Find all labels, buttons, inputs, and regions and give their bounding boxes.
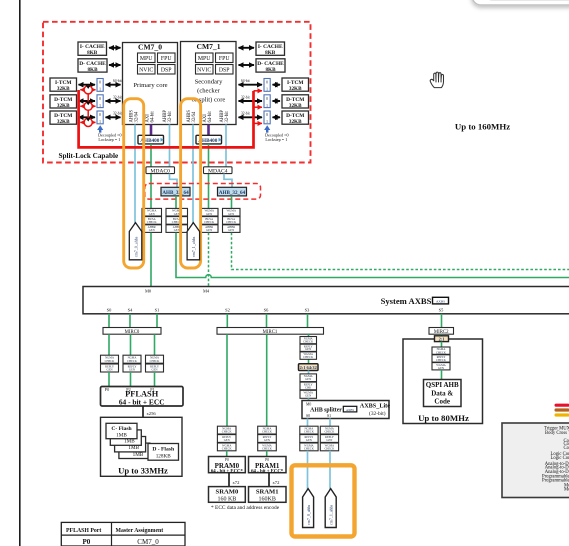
- svg-text:64 - bit + ECC*: 64 - bit + ECC*: [251, 469, 284, 474]
- svg-text:Data &: Data &: [431, 390, 453, 398]
- port label AXI 64-bit of CM7_0: [146, 111, 156, 123]
- MDAC0: [146, 167, 175, 175]
- I-TCM left of CM7_0: [50, 78, 77, 92]
- svg-text:x256: x256: [147, 411, 157, 416]
- gasket stack PRAM0: [217, 426, 236, 451]
- svg-text:1: 1: [266, 120, 268, 124]
- FPU U-CM7_0: [158, 53, 176, 63]
- svg-text:MDAC0: MDAC0: [150, 169, 170, 175]
- C-Flash stacked blocks: [106, 423, 150, 458]
- wire S3 to MIRC1: [307, 314, 309, 328]
- D-TCM left of CM7_0 (lower): [50, 111, 77, 125]
- svg-text:GEN: GEN: [305, 377, 312, 381]
- svg-text:32-bit: 32-bit: [241, 95, 250, 99]
- gasket stack ahbp1 (under AHB_32_64 right): [223, 208, 241, 232]
- lockstep select arrow right: [264, 125, 289, 142]
- svg-text:8KB: 8KB: [265, 50, 276, 56]
- svg-text:Mo: Mo: [564, 488, 569, 493]
- svg-text:CHECK: CHECK: [303, 355, 314, 359]
- svg-text:M0: M0: [306, 403, 311, 407]
- svg-text:SRAM1: SRAM1: [256, 489, 279, 496]
- svg-text:(checker: (checker: [197, 88, 220, 95]
- wire gasket P0 to PFLASH: [108, 372, 110, 387]
- I-TCM right of CM7_1: [282, 78, 309, 92]
- svg-text:S6: S6: [264, 307, 269, 312]
- port pentagon cm7_1_ahbs (top): [187, 223, 200, 260]
- svg-text:AHB splitter: AHB splitter: [310, 408, 342, 414]
- wire AHBP CM7_0 to MDAC0 (cyan): [169, 125, 171, 167]
- wire MDAC4 to AHB_32_64 (cyan jog): [224, 174, 232, 188]
- DSP U-CM7_0: [158, 65, 176, 75]
- svg-text:GEN: GEN: [306, 438, 313, 442]
- svg-text:0: 0: [266, 81, 268, 85]
- peripheral bus brown: [555, 408, 569, 411]
- wire S5 to MIRC2: [441, 314, 443, 328]
- svg-text:GEN: GEN: [264, 438, 271, 442]
- svg-text:CHECK: CHECK: [222, 430, 233, 434]
- D-CACHE right of CM7_1: [256, 59, 285, 73]
- svg-text:QSPI AHB: QSPI AHB: [426, 381, 459, 389]
- svg-text:P0: P0: [105, 387, 109, 392]
- peripherals region box: [502, 423, 569, 498]
- highlight box around bottom ports: [292, 465, 355, 536]
- svg-text:GEN: GEN: [206, 212, 213, 216]
- lockstep select arrow left: [97, 125, 122, 142]
- svg-text:GEN: GEN: [206, 228, 213, 232]
- peripheral bus red: [555, 404, 569, 407]
- wire S0 to MIRC0: [108, 314, 110, 328]
- gasket stack S0: [300, 426, 318, 451]
- MDAC4: [204, 167, 233, 175]
- wire MIRC2 to 2:1: [441, 334, 443, 336]
- I-CACHE left of CM7_0: [78, 42, 107, 56]
- wire arrow CM7_1 to mux right row1, 64-bit: [239, 79, 263, 85]
- port label AHBP 32-bit of CM7_0: [163, 110, 173, 123]
- wire gasket to PRAM0: [226, 451, 228, 457]
- svg-text:Body Cross Triggerin: Body Cross Triggerin: [545, 431, 569, 436]
- FPU U-CM7_1: [216, 53, 234, 63]
- svg-text:GEN: GEN: [228, 228, 235, 232]
- svg-text:S1: S1: [327, 414, 331, 418]
- svg-text:S2: S2: [225, 307, 230, 312]
- svg-text:32KB: 32KB: [289, 103, 302, 109]
- wire S6 to MIRC1: [266, 314, 268, 328]
- svg-text:1: 1: [99, 104, 101, 108]
- converter AHB_32_64 right: [218, 187, 247, 196]
- svg-text:8KB: 8KB: [87, 67, 98, 73]
- wire splitter S0 down (cyan): [307, 419, 309, 427]
- MPU U-CM7_0: [138, 53, 156, 63]
- wire S1 to MIRC0: [156, 314, 158, 328]
- port pentagon cm7_0_ahbs (bottom): [303, 489, 314, 528]
- svg-text:64 - bit + ECC*: 64 - bit + ECC*: [211, 469, 244, 474]
- svg-text:Con: Con: [564, 446, 569, 451]
- svg-text:2:1: 2:1: [439, 337, 445, 342]
- svg-text:Code: Code: [434, 398, 450, 406]
- svg-text:CHECK: CHECK: [303, 340, 314, 344]
- wire AXI CM7_0 to AHB400 (purple): [150, 125, 153, 136]
- DSP U-CM7_1: [216, 65, 234, 75]
- memory PRAM0: [209, 457, 246, 475]
- svg-text:CM7_1: CM7_1: [196, 42, 220, 51]
- wire arrow D-TCM to mux left row3: [79, 116, 96, 118]
- svg-text:DSP: DSP: [161, 68, 172, 74]
- svg-text:0: 0: [99, 97, 101, 101]
- NVIC U-CM7_1: [196, 65, 214, 75]
- svg-text:0: 0: [99, 81, 101, 85]
- svg-text:32/64: 32/64: [192, 111, 197, 122]
- port pentagon cm7_0_ahbs (top): [129, 223, 142, 260]
- svg-text:GEN: GEN: [129, 368, 136, 372]
- wire gasket P2 to PFLASH: [130, 372, 132, 387]
- gasket stack P0: [101, 355, 119, 372]
- core CM7_0: [123, 43, 178, 125]
- svg-text:1MB: 1MB: [128, 445, 139, 451]
- svg-text:GEN: GEN: [149, 212, 156, 216]
- memory SRAM0: [209, 487, 246, 503]
- svg-text:cm7_1_ahbs: cm7_1_ahbs: [191, 236, 196, 257]
- Split-Lock Capable dashed region: [43, 22, 311, 163]
- svg-text:0: 0: [266, 113, 268, 117]
- svg-text:1: 1: [99, 88, 101, 92]
- svg-text:GEN: GEN: [326, 438, 333, 442]
- wire PRAM0 to SRAM0, x72: [229, 473, 240, 487]
- svg-text:Lockstep = 1: Lockstep = 1: [98, 137, 120, 142]
- wire AHB_32_64 left down (green): [175, 196, 177, 209]
- wire S2 to MIRC1: [226, 314, 228, 328]
- bridge AHB400 of CM7_0: [138, 135, 164, 144]
- svg-text:32-bit: 32-bit: [113, 95, 122, 99]
- gasket stack QSPI: [432, 347, 450, 370]
- toolbar panel top-right: [471, 0, 569, 10]
- MIRC0: [103, 328, 161, 336]
- svg-text:CHECK: CHECK: [147, 220, 158, 224]
- svg-text:32KB: 32KB: [57, 86, 70, 92]
- svg-text:32-bit: 32-bit: [168, 111, 173, 123]
- mux 0/1 left row3: [97, 111, 103, 124]
- svg-text:CHECK: CHECK: [262, 430, 273, 434]
- svg-text:P0: P0: [83, 538, 91, 546]
- svg-text:8KB: 8KB: [265, 67, 276, 73]
- svg-text:S0: S0: [306, 414, 310, 418]
- svg-text:S1: S1: [155, 307, 160, 312]
- svg-text:GEN: GEN: [305, 394, 312, 398]
- gasket stack M4 (under AHB400_1): [201, 208, 219, 232]
- comparator circle row2: [84, 102, 92, 110]
- svg-text:GEN: GEN: [152, 368, 159, 372]
- svg-text:x72: x72: [273, 480, 281, 485]
- gasket stack above 2:1: [300, 337, 317, 360]
- svg-text:MPU: MPU: [198, 56, 211, 62]
- wire stack2 right to peripherals (green solid with hop): [176, 233, 569, 278]
- port label AHBS 32/64 of CM7_1: [187, 110, 197, 123]
- svg-text:CM7_0: CM7_0: [138, 43, 162, 52]
- wire stack3 to AXBS M4 (green dashed): [208, 233, 210, 287]
- comparator circle row3: [84, 118, 92, 126]
- svg-text:64-bit: 64-bit: [113, 79, 122, 83]
- MIRC1: [217, 328, 324, 336]
- wire arrow CM7_1 to I-CACHE: [239, 47, 255, 49]
- svg-text:32/64: 32/64: [134, 111, 139, 122]
- crossbar AHB splitter / AXBS_Lite: [302, 401, 390, 419]
- wire arrow CM7_1 to mux right row2, 32-bit: [239, 95, 263, 101]
- hand cursor: [430, 72, 443, 88]
- port label AHBS 32/64 of CM7_0: [130, 110, 140, 123]
- D-TCM left of CM7_0 (upper): [50, 95, 77, 109]
- svg-text:MPU: MPU: [140, 56, 153, 62]
- wire gasket to AHB splitter M0 (cyan): [308, 398, 310, 400]
- NVIC U-CM7_0: [138, 65, 156, 75]
- wire splitter S1 down (cyan): [329, 419, 331, 427]
- wire PFLASH to flash array, x256: [143, 406, 156, 417]
- mux 0/1 right row2: [264, 95, 270, 108]
- svg-text:1: 1: [266, 88, 268, 92]
- converter AHB_32_64 left: [161, 187, 190, 196]
- wire arrow I-TCM to mux left row1: [79, 84, 96, 86]
- svg-text:CHECK: CHECK: [222, 447, 233, 451]
- svg-text:64-bit: 64-bit: [241, 79, 250, 83]
- svg-text:Up to 160MHz: Up to 160MHz: [455, 122, 510, 132]
- MPU U-CM7_1: [196, 53, 214, 63]
- wire stack1 to AXBS M0 (green): [150, 233, 152, 287]
- svg-text:System AXBS: System AXBS: [381, 296, 432, 306]
- wire PRAM1 to SRAM1, x72: [269, 473, 280, 487]
- red wire linking comparator circles: [87, 90, 89, 123]
- wire MIRC0 to gasket P2: [130, 334, 132, 355]
- wire S4 to MIRC0: [129, 314, 131, 328]
- svg-text:32KB: 32KB: [57, 103, 70, 109]
- D-TCM right of CM7_1 (lower): [282, 111, 309, 125]
- port label AHBP 32-bit of CM7_1: [220, 110, 230, 123]
- highlight pill cm7_0 ahbs: [124, 99, 144, 268]
- wire arrow mux to CM7_0 row1, 64-bit: [106, 79, 122, 85]
- svg-text:AXBS_Lite: AXBS_Lite: [360, 403, 391, 410]
- svg-text:PFLASH Port: PFLASH Port: [66, 528, 101, 534]
- D-CACHE left of CM7_0: [78, 59, 107, 73]
- svg-text:1: 1: [266, 104, 268, 108]
- wire AHB400_1 down (green): [208, 144, 210, 209]
- gasket stack S1: [320, 426, 338, 451]
- svg-text:CHECK: CHECK: [325, 447, 336, 451]
- svg-text:32KB: 32KB: [57, 119, 70, 125]
- svg-text:AXBS: AXBS: [436, 300, 445, 304]
- memory PFLASH: [101, 387, 184, 407]
- wire arrow CM7_1 to mux right row3, 32-bit: [239, 112, 263, 118]
- svg-text:GEN: GEN: [438, 366, 445, 370]
- svg-text:2:1 64:32: 2:1 64:32: [300, 365, 317, 370]
- svg-text:0: 0: [266, 97, 268, 101]
- svg-text:Master Assignment: Master Assignment: [116, 528, 164, 534]
- red lockstep bus: [79, 90, 254, 147]
- QSPI region box: [403, 339, 483, 424]
- mux 0/1 right row1: [264, 79, 270, 92]
- svg-text:CHECK: CHECK: [150, 359, 161, 363]
- svg-text:M4: M4: [203, 288, 210, 293]
- svg-text:Logic Contr: Logic Contr: [551, 456, 569, 461]
- svg-text:cm7_0_ahbs: cm7_0_ahbs: [306, 504, 311, 525]
- wire AHBS CM7_1 to port cm7_1_ahbs (cyan): [192, 125, 194, 224]
- svg-text:Primary core: Primary core: [133, 82, 167, 89]
- svg-text:1MB: 1MB: [116, 432, 127, 438]
- svg-text:S3: S3: [305, 307, 310, 312]
- svg-text:128KB: 128KB: [156, 454, 172, 460]
- MIRC2: [429, 328, 454, 336]
- svg-text:32KB: 32KB: [289, 119, 302, 125]
- wire arrow CM7_1 to D-CACHE: [239, 64, 255, 66]
- gasket stack ahbp0 (under AHB_32_64 left): [166, 208, 188, 232]
- svg-text:64-bit: 64-bit: [150, 111, 155, 123]
- bridge AHB400 of CM7_1: [196, 135, 222, 144]
- converter 2:1 64:32: [299, 364, 319, 371]
- svg-text:NVIC: NVIC: [139, 68, 153, 74]
- svg-text:* ECC data and address encode: * ECC data and address encode: [211, 505, 280, 511]
- red wire into left TCM row2 and mux row2: [80, 105, 95, 107]
- svg-text:CHECK: CHECK: [325, 430, 336, 434]
- svg-text:GEN: GEN: [228, 212, 235, 216]
- svg-text:S0: S0: [107, 307, 112, 312]
- svg-text:32-bit: 32-bit: [241, 112, 250, 116]
- svg-text:MIRC0: MIRC0: [125, 330, 140, 335]
- wire arrow D-TCM to mux left row2: [79, 100, 96, 102]
- wire arrow mux to D-TCM right row2: [273, 100, 281, 102]
- svg-text:32KB: 32KB: [289, 86, 302, 92]
- wire AHBS CM7_0 to port cm7_0_ahbs (cyan): [134, 125, 136, 224]
- svg-text:NVIC: NVIC: [197, 68, 211, 74]
- svg-text:AHB_32_64: AHB_32_64: [219, 190, 246, 196]
- dashed region around AHB_32_64 converters: [145, 184, 261, 200]
- red wire into right mux row3: [254, 122, 263, 124]
- table PFLASH Port / Master Assignment: [61, 522, 185, 546]
- gasket stack PRAM1: [258, 426, 277, 451]
- wire arrow mux to CM7_0 row2, 32-bit: [106, 95, 122, 101]
- svg-text:MIRC1: MIRC1: [263, 330, 278, 335]
- svg-text:CHECK: CHECK: [226, 220, 237, 224]
- wire gasket to QSPI AHB: [441, 370, 443, 380]
- svg-text:CHECK: CHECK: [304, 430, 315, 434]
- svg-text:Up to 80MHz: Up to 80MHz: [418, 413, 469, 423]
- D-Flash block: [148, 444, 179, 461]
- I-CACHE right of CM7_1: [256, 42, 285, 56]
- peripheral list text: [542, 427, 569, 493]
- gasket stack M0 (under AHB400_0): [142, 208, 162, 232]
- svg-text:GEN: GEN: [107, 368, 114, 372]
- comparator circle row1: [84, 86, 92, 94]
- svg-text:Lockstep = 1: Lockstep = 1: [265, 137, 287, 142]
- wire AHBP CM7_1 to MDAC4 (cyan): [225, 125, 227, 167]
- D-TCM right of CM7_1 (upper): [282, 95, 309, 109]
- red wire into right mux row1: [254, 90, 263, 92]
- svg-text:DSP: DSP: [219, 68, 230, 74]
- wire MIRC0 to gasket P1: [154, 334, 156, 355]
- svg-text:64 - bit + ECC: 64 - bit + ECC: [119, 398, 165, 407]
- svg-text:1MB: 1MB: [124, 439, 135, 445]
- wire MIRC0 to gasket P0: [108, 334, 110, 355]
- red wire into left TCM row3 and mux row3: [80, 121, 95, 123]
- wire gasket to PRAM1: [266, 451, 268, 457]
- wire stack4 right to peripherals (green dashed): [232, 233, 569, 270]
- wire MIRC1 to PRAM0 gasket: [226, 334, 228, 426]
- mux 0/1 left row1: [97, 79, 103, 92]
- svg-text:CHECK: CHECK: [262, 447, 273, 451]
- flash array region: [101, 417, 183, 476]
- svg-text:C- Flash: C- Flash: [111, 426, 132, 432]
- memory PRAM1: [249, 457, 287, 475]
- svg-text:cm7_0_ahbs: cm7_0_ahbs: [133, 236, 138, 257]
- mux 0/1 left row2: [97, 95, 103, 108]
- svg-text:1: 1: [99, 120, 101, 124]
- crossbar System AXBS: [83, 287, 569, 314]
- svg-text:160 KB: 160 KB: [217, 497, 236, 503]
- red wire into right mux row2: [254, 106, 263, 108]
- svg-text:Up to 33MHz: Up to 33MHz: [118, 466, 168, 476]
- red wire into left TCM row1 and mux row1: [80, 89, 95, 91]
- svg-text:CHECK: CHECK: [204, 220, 215, 224]
- port pentagon cm7_1_ahbs (bottom): [325, 489, 336, 528]
- wire AXI CM7_1 to AHB400 (purple): [207, 125, 210, 136]
- wire arrow mux to CM7_0 row3, 32-bit: [106, 112, 122, 118]
- wire arrow I-CACHE to CM7_0: [109, 47, 121, 49]
- svg-text:160KB: 160KB: [259, 497, 276, 503]
- svg-text:64-bit: 64-bit: [208, 111, 213, 123]
- wire AHB400_0 down (green): [150, 144, 152, 209]
- svg-text:cm7_1_ahbs: cm7_1_ahbs: [329, 504, 334, 525]
- svg-text:CHECK: CHECK: [304, 447, 315, 451]
- wire arrow mux to I-TCM right row1: [273, 84, 281, 86]
- port label AXI 64-bit of CM7_1: [203, 111, 213, 123]
- peripheral bus amber: [555, 413, 569, 416]
- svg-text:32-bit: 32-bit: [225, 111, 230, 123]
- black taps into comparator circles: [86, 85, 91, 89]
- svg-text:FPU: FPU: [219, 56, 230, 62]
- wire 2:1 to QSPI gasket: [441, 342, 443, 347]
- wire MIRC1 to PRAM1 gasket: [266, 334, 268, 426]
- svg-text:GEN: GEN: [305, 347, 312, 351]
- gasket stack below 2:1: [300, 374, 317, 398]
- svg-text:CHECK: CHECK: [127, 359, 138, 363]
- gasket stack P1: [146, 355, 164, 372]
- svg-text:1MB: 1MB: [133, 452, 144, 458]
- wire MIRC1 to 2:1 converter column (green): [308, 334, 310, 364]
- svg-text:S4: S4: [128, 307, 133, 312]
- svg-text:S5: S5: [439, 307, 444, 312]
- core CM7_1: [181, 42, 237, 125]
- wire 2:1 down (cyan): [308, 371, 310, 374]
- svg-text:8KB: 8KB: [87, 50, 98, 56]
- svg-text:0: 0: [99, 113, 101, 117]
- svg-text:32-bit: 32-bit: [113, 112, 122, 116]
- svg-text:CHECK: CHECK: [436, 350, 447, 354]
- memory SRAM1: [249, 487, 287, 503]
- wire gasket P1 to PFLASH: [154, 372, 156, 387]
- wire arrow D-CACHE to CM7_0: [109, 64, 121, 66]
- wire AHB_32_64 right down (green): [231, 196, 233, 209]
- wire arrow mux to D-TCM right row3: [273, 116, 281, 118]
- svg-text:CHECK: CHECK: [105, 359, 116, 363]
- svg-text:CHK: CHK: [305, 385, 312, 389]
- wire MDAC0 to AHB_32_64 (cyan jog): [170, 174, 178, 188]
- wire S0 gasket to port cm7_0_ahbs (cyan): [307, 451, 309, 490]
- svg-text:Secondary: Secondary: [195, 79, 224, 86]
- QSPI AHB Data & Code block: [424, 380, 462, 407]
- page edge vertical line: [19, 0, 21, 546]
- svg-text:(32-bit): (32-bit): [369, 410, 386, 417]
- svg-text:AXBS: AXBS: [346, 408, 354, 412]
- svg-text:GEN: GEN: [149, 228, 156, 232]
- svg-text:M0: M0: [145, 288, 152, 293]
- gasket stack P2: [123, 355, 141, 372]
- svg-text:D - Flash: D - Flash: [152, 447, 175, 453]
- svg-text:GEN: GEN: [224, 438, 231, 442]
